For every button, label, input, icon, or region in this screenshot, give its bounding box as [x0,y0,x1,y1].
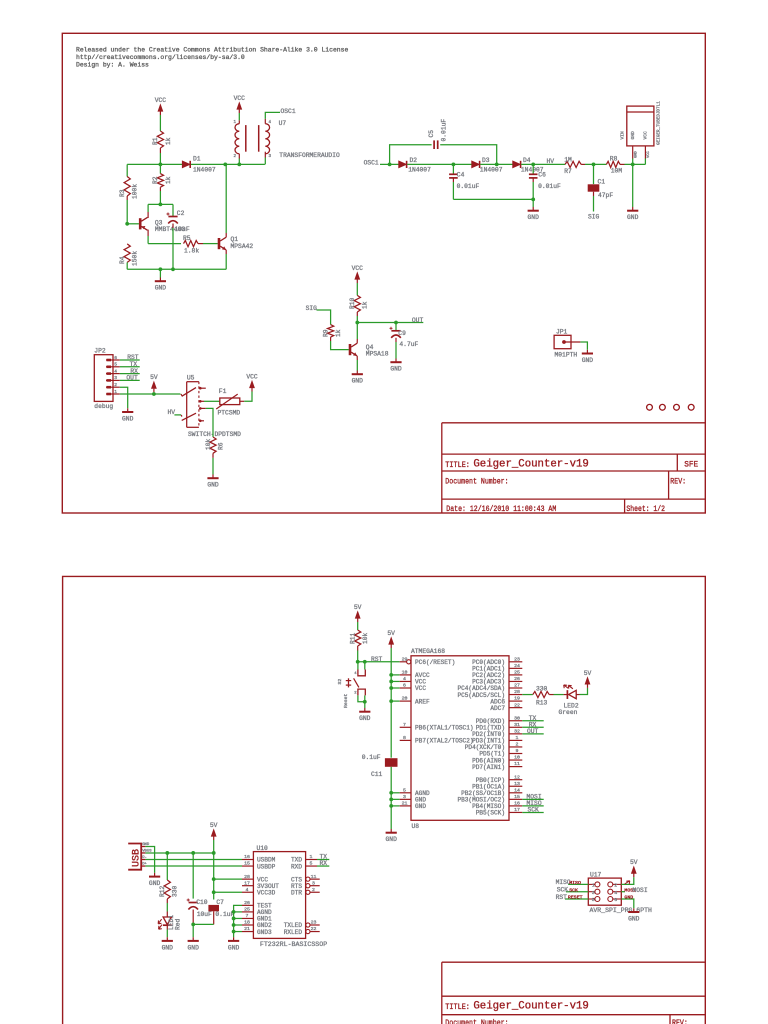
svg-text:C1: C1 [598,178,606,185]
svg-text:Document Number:: Document Number: [445,1018,508,1024]
U8 pin 29 PC6(/RESET) [400,661,407,663]
ground (JP1) [586,350,588,353]
wire right winding to node A [264,158,266,165]
U10 pin 23 TXLED [306,923,310,927]
resistor R1 1k [157,131,163,148]
resistor R13 330 [533,691,549,697]
ground (U17) [633,908,635,911]
svg-text:10uF: 10uF [175,226,190,233]
U8 pin 10 AVCC [400,674,411,676]
transistor Q3 MMBT4403 (PNP) [139,218,142,229]
geiger tube pin stubs [632,146,634,159]
svg-text:21: 21 [244,926,250,932]
svg-text:4: 4 [403,676,406,682]
svg-text:4: 4 [114,368,117,374]
wire to FTDI VCCIO pin 4 [214,891,242,893]
svg-text:15: 15 [244,861,250,867]
5V power symbol (U17) [633,874,635,878]
wire R10 to OUT node [356,312,358,316]
svg-text:RESET: RESET [568,895,583,901]
svg-text:1N4007: 1N4007 [480,167,503,174]
wire S2 to GND [358,695,365,701]
USB pin 3 D- [141,859,145,861]
svg-text:U17: U17 [590,871,602,878]
U8 pin 30 PD0(RXD) [509,720,522,722]
svg-text:C4: C4 [457,171,465,178]
VBUS wire [145,852,213,854]
ground (C9) [395,359,397,362]
svg-text:VCC: VCC [246,374,258,381]
svg-text:R11: R11 [350,632,357,644]
junction S2 branch [363,660,367,664]
svg-text:DTR: DTR [291,889,302,896]
junction C9/OUT wire [394,321,398,325]
U10 pin 16 USBDM [242,859,253,861]
ground (JP2 pin 2) [120,387,128,408]
svg-text:RST: RST [371,656,383,663]
svg-text:PB6(XTAL1/TOSC1): PB6(XTAL1/TOSC1) [415,725,474,732]
svg-text:30: 30 [514,715,520,721]
U8 pin 7 PB6(XTAL1/TOSC1) [400,726,411,728]
connector U17 AVR_SPI_PRG_6PTH [588,878,621,905]
svg-text:SIG: SIG [588,214,600,221]
5V power symbol (JP2) [153,389,155,393]
svg-text:GND: GND [122,416,134,423]
wire C5 branch right [440,145,497,165]
wire R9 to Q4 base [330,337,332,341]
svg-text:6: 6 [614,897,617,903]
svg-text:150k: 150k [131,251,138,266]
svg-text:GND: GND [624,895,633,901]
junction 5V vertical [212,851,216,855]
svg-text:5: 5 [114,362,117,368]
svg-text:D4: D4 [523,157,531,164]
svg-text:3: 3 [312,880,315,886]
wire U17 pin6 to GND [621,899,634,908]
U8 pin 26 PC3(ADC3) [509,680,522,682]
svg-text:1k: 1k [165,137,172,145]
capacitor C2 10uF [172,204,174,216]
svg-text:23: 23 [311,920,317,926]
svg-text:28: 28 [244,874,250,880]
svg-text:18: 18 [244,920,250,926]
svg-text:R7: R7 [564,168,572,175]
svg-text:SFE: SFE [684,459,698,469]
svg-text:SCK: SCK [557,887,569,894]
U10 pin 5 RXD [306,865,317,867]
svg-text:3: 3 [592,890,595,896]
loop bottom wire Q3 emitter to R5 [148,243,181,245]
junction geiger tube GND pin [631,163,635,167]
svg-text:5: 5 [403,787,406,793]
svg-text:R6: R6 [217,442,224,450]
wire JP1 to GND [580,342,587,350]
capacitor C11 0.1uF [385,758,398,767]
RST wire to MCU pin 29 [358,661,400,663]
svg-text:VCC: VCC [415,685,426,692]
svg-text:VCC3D: VCC3D [257,889,276,896]
svg-text:R5: R5 [183,235,191,242]
wire 5V to R11 [357,622,359,630]
svg-text:HV: HV [168,409,176,416]
svg-text:R1: R1 [152,137,159,145]
wire R4 to bottom rail [126,262,128,269]
svg-text:Document Number:: Document Number: [445,476,508,486]
svg-text:5V: 5V [387,630,395,637]
svg-text:27: 27 [514,683,520,689]
U8 pin 28 PC5(ADC5/SCL) [509,694,522,696]
svg-text:RX: RX [320,860,328,867]
junction AGND [389,791,393,795]
capacitor C10 10uF [192,853,194,899]
5V vertical to FTDI VCC pins and C7 [213,853,215,900]
svg-text:31: 31 [514,722,520,728]
svg-text:2: 2 [312,887,315,893]
svg-text:Red: Red [175,918,182,930]
svg-text:1k: 1k [335,329,342,337]
svg-text:19: 19 [514,696,520,702]
svg-text:R13: R13 [536,699,548,706]
net SCK wire (U17 pin3) [566,891,588,893]
wire C10/C7 bottoms joined [193,923,214,925]
mounting hole fiducials [647,404,653,410]
wire to AGND pin [391,792,400,794]
U8 pin 32 PD2(INT0) [509,733,522,735]
svg-text:11: 11 [514,761,520,767]
svg-text:6: 6 [403,683,406,689]
wire tube VCC pin to node [644,159,646,165]
svg-text:Q1: Q1 [231,236,239,243]
wire R7 to R8 [581,163,585,165]
capacitor C5 0.01uF [433,140,435,149]
wire to GND (C10/C7) [192,924,194,937]
wire D3 to D4 [480,163,513,165]
wire VCC to R10 [356,283,358,295]
svg-text:10: 10 [514,755,520,761]
net MISO wire (MCU pin 16) [522,805,543,807]
svg-text:USB: USB [132,849,143,867]
svg-text:330: 330 [172,885,179,897]
junction VCC pin4 [389,680,393,684]
page 2 frame (sheet 2/2) [63,576,706,1024]
svg-text:28: 28 [514,689,520,695]
junction C4 top [452,163,456,167]
U10 pin 25 AGND [242,911,253,913]
net OUT stub (JP2 pin 3) [120,379,140,381]
svg-text:1: 1 [592,883,595,889]
wire R5 to Q1 base [198,243,203,245]
U8 pin 16 PB4(MISO) [509,805,522,807]
page 1 frame (sheet 1/2) [62,33,705,513]
svg-text:PC6(/RESET): PC6(/RESET) [415,659,455,666]
junction R1/R2 node A [159,163,163,167]
capacitor C7 0.1uF [208,905,219,911]
svg-text:C11: C11 [371,771,383,778]
resistor R9 1k [328,325,334,338]
svg-text:Released under the Creative Co: Released under the Creative Commons Attr… [76,47,348,54]
node A horizontal wire y=164.4 [127,163,182,165]
svg-text:1N4007: 1N4007 [408,167,431,174]
svg-text:JP1: JP1 [556,328,568,335]
U10 pin 4 VCC3D [242,891,253,893]
resistor R8 10M [606,161,620,167]
wire HV to switch pole 2 [174,414,181,416]
5V power symbol (USB) [213,836,215,840]
svg-text:0.1uF: 0.1uF [362,754,381,761]
junction node A / Q1 rail [223,163,227,167]
U8 pin 19 ADC6 [509,700,522,702]
svg-text:R4: R4 [119,256,126,264]
svg-text:C2: C2 [177,210,185,217]
svg-text:R10: R10 [349,297,356,309]
svg-text:3: 3 [403,794,406,800]
net RST wire (U17 pin5) [565,898,588,900]
svg-text:47pF: 47pF [598,192,613,199]
svg-text:5V: 5V [630,859,638,866]
svg-text:Geiger_Counter-v19: Geiger_Counter-v19 [473,459,588,471]
U8 pin 14 PB2(SS/OC1B) [509,792,522,794]
svg-text:http//creativecommons.org/lice: http//creativecommons.org/licenses/by-sa… [76,54,245,61]
svg-text:5V: 5V [354,604,362,611]
svg-text:R3: R3 [119,189,126,197]
resistor R7 1M [565,161,581,167]
svg-text:32: 32 [514,728,520,734]
net SCK wire (MCU pin 17) [522,811,543,813]
wire D2 to D3 [407,163,472,165]
U8 pin 21 GND [400,805,411,807]
switch S2 Reset [357,662,359,670]
svg-text:OSC1: OSC1 [281,108,296,115]
svg-text:F1: F1 [219,388,227,395]
svg-text:MPSA42: MPSA42 [231,243,254,250]
U8 pin 24 PC1(ADC1) [509,667,522,669]
U10 pin 11 CTS [306,877,310,881]
svg-text:17: 17 [514,807,520,813]
svg-text:11: 11 [311,874,317,880]
svg-text:4.7uF: 4.7uF [399,341,418,348]
wire switch pole2 to R6 [206,408,213,437]
svg-text:D3: D3 [482,157,490,164]
ground (Q4 emitter) [356,360,358,371]
svg-text:7: 7 [403,722,406,728]
ground (geiger tube) [632,164,634,207]
wire MCU pin28 to R13 [522,694,533,696]
svg-text:GND: GND [528,214,540,221]
wire to VCC pin 4 [391,680,400,682]
svg-text:15: 15 [514,794,520,800]
svg-text:PB5(SCK): PB5(SCK) [476,810,505,817]
junction VCC pin6 [389,686,393,690]
net MOSI wire (U17 pin4) [621,891,625,893]
resistor R10 1k [354,295,360,312]
svg-text:20: 20 [402,696,408,702]
svg-text:1: 1 [114,389,117,395]
multiplier bottom wire C4 to C6 [453,198,533,200]
wire R6 to GND [212,453,214,458]
net TX stub (JP2 pin 5) [120,366,140,368]
junction GND pin3 [389,797,393,801]
wire tube GND pin to node [632,159,634,165]
svg-text:1N4007: 1N4007 [193,167,216,174]
svg-text:OUT: OUT [412,317,424,324]
wire USB D+ to FTDI USBDP [145,865,242,867]
resistor R11 10k [355,630,361,646]
svg-text:1: 1 [310,854,313,860]
JP2 pin 1 [106,393,120,395]
svg-text:R2: R2 [152,176,159,184]
svg-text:U5: U5 [187,375,195,382]
svg-text:debug: debug [94,403,113,410]
IC U10 FT232RL [253,852,305,939]
svg-text:1: 1 [516,735,519,741]
svg-text:D2: D2 [410,157,418,164]
svg-text:Design by: A. Weiss: Design by: A. Weiss [76,61,149,68]
flip-flop loop top wire [148,203,173,205]
ground (LED1) [166,937,168,940]
5V power symbol (above R11) [357,618,359,622]
transistor Q1 MPSA42 (NPN) [218,238,221,249]
LED2 Green [566,690,568,699]
svg-text:5V: 5V [584,670,592,677]
capacitor C1 47pF [593,164,595,184]
U8 pin 8 PB7(XTAL2/TOSC2) [400,739,411,741]
svg-text:C7: C7 [216,899,224,906]
svg-text:GND: GND [188,944,200,951]
svg-text:GND: GND [359,715,371,722]
wire to GND pin 21 [391,805,400,807]
svg-text:OSC1: OSC1 [364,160,379,167]
svg-text:PD7(AIN1): PD7(AIN1) [472,764,505,771]
svg-text:GND: GND [386,836,398,843]
ground (S2) [364,708,366,711]
junction C1 top [592,163,596,167]
wire OSC1 to D2 [380,163,399,165]
net MISO wire (U17 pin1) [568,883,588,885]
svg-text:VIN: VIN [620,131,626,140]
svg-text:RXD: RXD [291,863,302,870]
wire OSC1 from right winding [265,112,280,119]
svg-text:M01PTH: M01PTH [555,351,578,358]
U8 pin 10 PD6(AIN0) [509,759,522,761]
wire USB D- to FTDI USBDM [145,859,242,861]
net RX wire (MCU pin 31) [522,726,543,728]
wire to VCC pin 6 [391,687,400,689]
USB pin 4 D+ [141,865,145,867]
net TX wire (MCU pin 30) [522,720,543,722]
svg-text:VCC: VCC [647,150,651,158]
5V rail wire down left side of MCU [390,648,392,758]
U10 pin 22 RXLED [306,929,310,933]
svg-text:16: 16 [514,801,520,807]
U8 pin 20 AREF [400,700,411,702]
JP2 pin 3 [106,379,120,381]
svg-text:10M: 10M [611,167,623,174]
svg-text:GND: GND [352,378,364,385]
wire VCC to winding [238,113,240,120]
svg-text:C6: C6 [538,171,546,178]
svg-text:JP2: JP2 [94,348,106,355]
resistor R2 1k [159,164,161,173]
svg-text:AREF: AREF [415,698,430,705]
JP2 pin 4 [106,373,120,375]
junction R12 [165,851,169,855]
wire C5 branch left [390,145,432,165]
U10 pin 18 GND2 [242,924,253,926]
resistor R12 330 [166,853,168,880]
svg-text:0.01uF: 0.01uF [538,183,561,190]
svg-text:R9: R9 [322,329,329,337]
net TX wire (FTDI TXD) [317,859,329,861]
capacitor C9 4.7uF [395,323,397,331]
U8 pin 1 PD3(INT1) [509,739,522,741]
wire D4 to R7 (HV node) [521,163,565,165]
svg-text:D1: D1 [193,156,201,163]
svg-text:C10: C10 [196,899,208,906]
U10 pin 26 TEST [242,904,253,906]
svg-text:5: 5 [592,897,595,903]
svg-text:FT232RL-BASICSSOP: FT232RL-BASICSSOP [260,941,327,948]
svg-text:0.01uF: 0.01uF [457,183,480,190]
connector JP2 debug [94,355,113,402]
junction Q3 base / left rail [125,222,129,226]
svg-text:1k: 1k [362,301,369,309]
wire transformer pin2 to node A [238,159,240,165]
svg-text:7: 7 [246,913,249,919]
junction R11/RST [356,660,360,664]
svg-text:26: 26 [244,900,250,906]
junction C6 bottom / GND drop [531,198,535,202]
U8 pin 27 PC4(ADC4/SDA) [509,687,522,689]
svg-text:HV: HV [547,158,555,165]
svg-text:C9: C9 [398,330,406,337]
svg-text:Green: Green [559,709,578,716]
svg-text:GND: GND [582,357,594,364]
svg-text:100k: 100k [131,184,138,199]
svg-text:SCK: SCK [569,887,578,893]
diode D3 1N4007 [472,161,480,168]
U8 pin 13 PB1(OC1A) [509,785,522,787]
svg-text:GND: GND [628,916,640,923]
wire R3 to Q3 base node [126,196,128,200]
svg-text:5V: 5V [210,822,218,829]
wire JP2 pin 1 to switch U5 [120,393,181,395]
transistor Q4 MPSA18 (NPN) [349,344,352,355]
JP2 pin 2 [106,386,120,388]
junction FTDI VCCIO [212,890,216,894]
ground (FTDI) [233,937,235,940]
svg-text:4: 4 [614,890,617,896]
svg-text:GND: GND [630,131,636,140]
junction GND drop/bottom rail [159,267,163,271]
U10 pin 15 USBDP [242,865,253,867]
ground (MCU) [390,829,392,832]
svg-text:REV:: REV: [670,476,686,486]
svg-text:OUT: OUT [527,728,539,735]
5V rail below C11 (ground side) [390,767,392,829]
junction C5 left leg [388,163,392,167]
svg-text:C5: C5 [428,130,435,138]
svg-text:SIG: SIG [306,305,318,312]
U10 pin 1 TXD [306,859,317,861]
VCC power symbol (above R1) [159,111,161,115]
svg-text:GND: GND [415,803,426,810]
svg-text:1k: 1k [165,176,172,184]
fuse F1 PTCSMD [220,398,240,405]
junction AREF [389,699,393,703]
U8 pin 17 PB5(SCK) [509,811,522,813]
wire 5V arrow to VBUS [213,840,215,853]
junction GND pin21 [389,804,393,808]
